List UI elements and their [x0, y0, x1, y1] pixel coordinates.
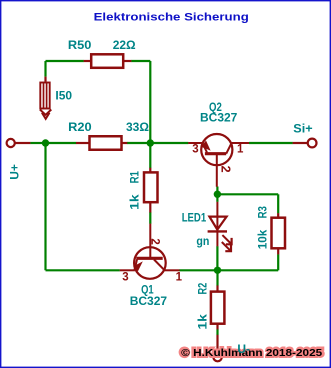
- svg-text:BC327: BC327: [130, 294, 168, 308]
- wire R20 right to node B: [127, 142, 150, 144]
- terminal U-: [213, 353, 221, 361]
- svg-text:1k: 1k: [196, 314, 210, 330]
- LED emission arrow 1: [222, 235, 230, 243]
- wire U+ to node A: [30, 142, 45, 144]
- wire R2 to terminal U-: [216, 335, 218, 353]
- wire R2 bottom to U- pin: [216, 329, 218, 335]
- svg-text:Si+: Si+: [293, 122, 312, 136]
- wire node C to LED anode: [216, 194, 218, 202]
- wire Q2 base to node C: [216, 187, 218, 195]
- LED emission arrow 2: [222, 242, 230, 250]
- svg-text:U-: U-: [237, 342, 250, 356]
- node A junction: [42, 139, 49, 146]
- wire R3 bottom down to corner: [277, 254, 279, 270]
- wire node A to R20 left: [46, 142, 77, 144]
- wire Q2 collector to Si+ pin: [249, 142, 293, 144]
- wire node A down to Q1 emitter row: [44, 143, 46, 270]
- node C junction: [214, 191, 221, 198]
- svg-text:LED1: LED1: [182, 211, 207, 225]
- wire node B down to R1 top: [149, 143, 151, 168]
- svg-text:3: 3: [192, 143, 198, 155]
- resistor R2: [216, 285, 218, 291]
- wire R3 top corner down: [277, 194, 279, 213]
- node D junction: [214, 267, 221, 274]
- svg-text:1: 1: [176, 272, 183, 284]
- wire R50 right to corner: [131, 60, 150, 62]
- transistor Q1 BC327: [120, 224, 180, 279]
- wire node D down to R2 top: [216, 270, 218, 285]
- node B junction: [147, 139, 154, 146]
- svg-text:2: 2: [219, 166, 233, 173]
- svg-text:R50: R50: [68, 38, 92, 52]
- svg-text:22Ω: 22Ω: [113, 38, 136, 52]
- svg-text:I50: I50: [55, 89, 72, 103]
- transistor Q2 BC327: [188, 134, 249, 187]
- resistor R20: [76, 142, 90, 144]
- svg-text:U+: U+: [8, 164, 22, 180]
- resistor R50: [84, 60, 92, 62]
- svg-text:gn: gn: [196, 234, 209, 248]
- wire Q1 collector lead to node D: [179, 269, 217, 271]
- svg-text:R20: R20: [68, 120, 92, 134]
- svg-text:BC327: BC327: [200, 111, 238, 125]
- svg-text:3: 3: [122, 272, 128, 284]
- svg-text:2: 2: [148, 238, 160, 244]
- resistor R3: [277, 213, 279, 218]
- svg-text:© H.Kuhlmann 2018-2025: © H.Kuhlmann 2018-2025: [181, 348, 323, 359]
- wire R50 left horizontal: [46, 60, 84, 62]
- wire corner down to node B: [149, 61, 151, 143]
- svg-text:10k: 10k: [256, 229, 270, 249]
- wire LED cathode to node D: [216, 246, 218, 270]
- wire R3 bottom corner to node D: [218, 269, 279, 271]
- svg-text:1: 1: [237, 143, 244, 155]
- svg-text:R1: R1: [127, 171, 141, 184]
- wire bottom-left horizontal to Q1 emitter lead: [46, 269, 120, 271]
- LED LED1: [208, 202, 232, 251]
- resistor R1: [149, 168, 151, 173]
- svg-text:33Ω: 33Ω: [126, 120, 149, 134]
- wire R1 bottom to Q1 base pin: [149, 212, 151, 224]
- svg-text:Elektronische Sicherung: Elektronische Sicherung: [94, 12, 249, 24]
- wire R50 left down to I50 probe: [44, 61, 46, 77]
- terminal Si+: [308, 139, 317, 148]
- svg-text:R2: R2: [196, 282, 210, 294]
- current probe I50: [44, 77, 46, 82]
- svg-text:R3: R3: [256, 206, 270, 219]
- svg-text:1k: 1k: [127, 194, 141, 210]
- wire node B to Q2 emitter lead: [150, 142, 188, 144]
- wire node C right to R3 top corner: [217, 193, 278, 195]
- terminal U+: [7, 139, 15, 147]
